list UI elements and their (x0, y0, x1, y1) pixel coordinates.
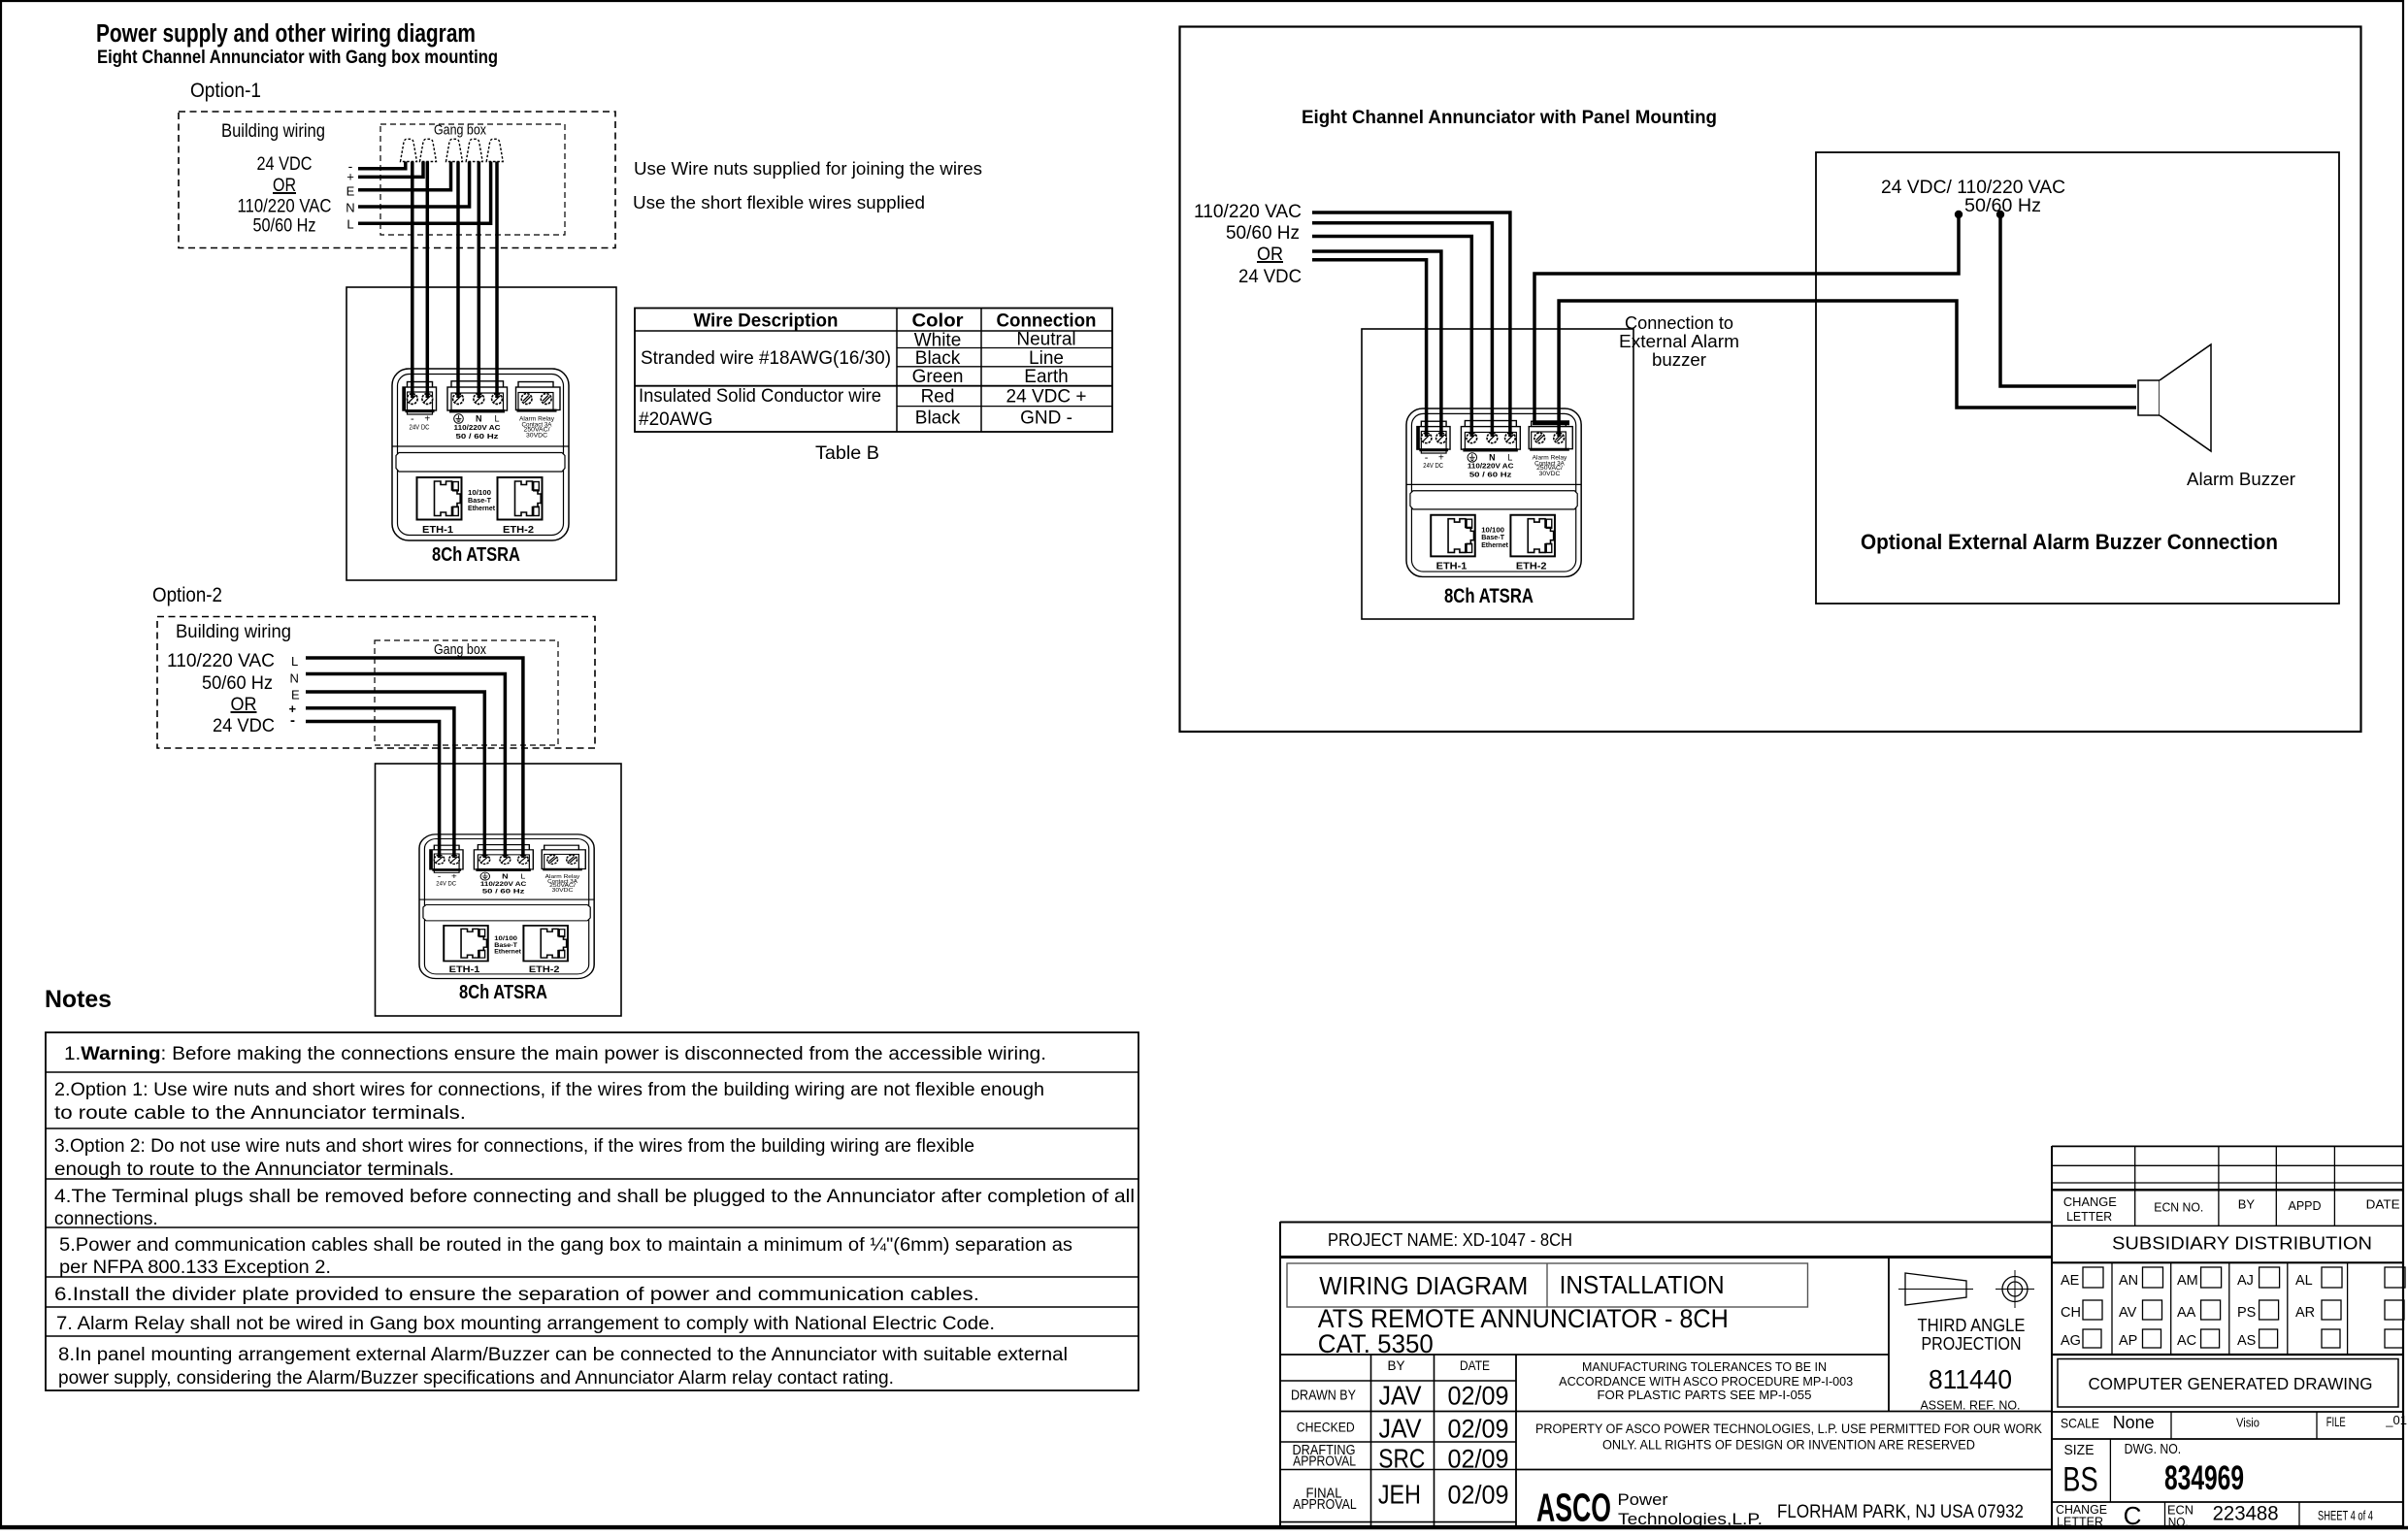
terminal block 24VDC of U3 panel (1417, 421, 1450, 470)
svg-text:834969: 834969 (2164, 1459, 2244, 1497)
svg-text:ETH-2: ETH-2 (529, 964, 560, 974)
svg-text:SHEET 4 of 4: SHEET 4 of 4 (2318, 1509, 2373, 1523)
terminal letters (option 2) (289, 654, 301, 729)
svg-text:_01: _01 (2385, 1413, 2407, 1427)
svg-text:02/09: 02/09 (1448, 1481, 1509, 1510)
Notes heading (45, 986, 112, 1013)
wire nut 4 (466, 139, 482, 161)
svg-text:Insulated Solid Conductor wire: Insulated Solid Conductor wire (639, 386, 881, 407)
wire plus 24VDC (option 1) (358, 161, 423, 177)
terminal letters (option 1) (346, 158, 354, 231)
svg-text:02/09: 02/09 (1448, 1414, 1509, 1443)
svg-text:50 / 60 Hz: 50 / 60 Hz (1469, 472, 1512, 479)
svg-text:+: + (451, 871, 457, 880)
label 8Ch ATSRA (option 2) (459, 981, 547, 1003)
option 1 mounting box (346, 287, 616, 580)
svg-text:PS: PS (2237, 1305, 2256, 1321)
svg-text:AM: AM (2177, 1273, 2198, 1289)
drawing title (1318, 1304, 1729, 1358)
label 8Ch ATSRA (panel) (1444, 585, 1534, 607)
distribution checkboxes (2112, 1262, 2348, 1355)
label 8Ch ATSRA (option 1) (432, 543, 520, 566)
svg-text:Earth: Earth (1024, 367, 1068, 387)
supply node dots (1955, 211, 2004, 218)
svg-text:AA: AA (2177, 1305, 2196, 1321)
terminal block Alarm Relay of U3 panel (1529, 421, 1572, 477)
svg-text:AV: AV (2119, 1305, 2137, 1321)
svg-text:OR: OR (273, 175, 296, 196)
svg-text:Connection to: Connection to (1625, 312, 1733, 333)
svg-text:DATE: DATE (1460, 1358, 1490, 1373)
label 10/100 Base-T Ethernet of U2 option-2 (494, 935, 521, 955)
svg-text:Building wiring: Building wiring (176, 622, 291, 642)
svg-text:BS: BS (2062, 1461, 2097, 1499)
alarm relay wire B to buzzer (1559, 301, 2136, 437)
wire nut1 drop to 24VDC - terminal (411, 161, 414, 398)
svg-text:AP: AP (2119, 1333, 2137, 1349)
svg-text:8Ch ATSRA: 8Ch ATSRA (1444, 585, 1534, 607)
buzzer supply wire (2000, 215, 2136, 386)
svg-text:OR: OR (1257, 244, 1283, 265)
svg-text:SRC: SRC (1378, 1444, 1425, 1474)
svg-text:10/100: 10/100 (494, 935, 517, 941)
svg-text:50 / 60 Hz: 50 / 60 Hz (482, 889, 526, 895)
svg-text:FOR PLASTIC PARTS SEE MP-I-055: FOR PLASTIC PARTS SEE MP-I-055 (1598, 1389, 1812, 1402)
svg-text:24 VDC: 24 VDC (257, 153, 313, 175)
svg-text:SIZE: SIZE (2064, 1443, 2095, 1458)
svg-text:GND -: GND - (1020, 409, 1072, 429)
svg-text:Technologies,L.P.: Technologies,L.P. (1618, 1511, 1763, 1528)
svg-text:CAT. 5350: CAT. 5350 (1318, 1329, 1434, 1358)
change letter / ecn / sheet row (2052, 1501, 2403, 1530)
svg-text:LETTER: LETTER (2066, 1209, 2112, 1224)
svg-text:Ethernet: Ethernet (1481, 540, 1508, 549)
ethernet port ETH-1 of U2 option-2 (444, 926, 488, 975)
svg-text:SUBSIDIARY DISTRIBUTION: SUBSIDIARY DISTRIBUTION (2112, 1233, 2372, 1254)
label 10/100 Base-T Ethernet of U3 panel (1481, 525, 1508, 549)
svg-text:AS: AS (2237, 1333, 2256, 1349)
svg-text:connections.: connections. (54, 1209, 158, 1229)
svg-text:AG: AG (2061, 1333, 2081, 1349)
svg-text:1.Warning: Before making the c: 1.Warning: Before making the connections… (64, 1044, 1046, 1064)
svg-text:L: L (494, 414, 499, 424)
front bezel band of U3 panel (1406, 484, 1581, 508)
svg-text:02/09: 02/09 (1448, 1382, 1509, 1411)
svg-text:Ethernet: Ethernet (494, 949, 521, 955)
svg-text:+: + (346, 170, 354, 184)
wire minus (panel) (1312, 260, 1427, 437)
svg-text:Alarm Buzzer: Alarm Buzzer (2187, 469, 2295, 489)
svg-text:ETH-2: ETH-2 (503, 524, 534, 536)
ethernet port ETH-2 of U1 option-1 (498, 477, 543, 536)
svg-text:JEH: JEH (1378, 1480, 1421, 1510)
svg-text:ONLY. ALL RIGHTS OF DESIGN OR: ONLY. ALL RIGHTS OF DESIGN OR INVENTION … (1602, 1437, 1975, 1452)
svg-text:Neutral: Neutral (1016, 330, 1075, 350)
wire earth E (option 2) (306, 692, 484, 858)
svg-text:Use the short flexible wires s: Use the short flexible wires supplied (633, 192, 925, 212)
svg-text:4.The Terminal plugs shall be: 4.The Terminal plugs shall be removed be… (54, 1187, 1135, 1207)
svg-text:BY: BY (2238, 1197, 2256, 1212)
svg-text:#20AWG: #20AWG (639, 409, 712, 430)
wire line L (option 2) (306, 658, 523, 858)
wire nut5 drop to L terminal (495, 161, 499, 398)
svg-text:DATE: DATE (2366, 1197, 2400, 1212)
ethernet port ETH-1 of U1 option-1 (417, 477, 462, 536)
source labels (option 2) (167, 650, 275, 736)
terminal block 110/220VAC of U2 option-2 (474, 845, 533, 896)
annunciator U1 option-1 (8Ch ATSRA) body (392, 369, 569, 540)
approval table text (1291, 1358, 1509, 1513)
buzzer supply labels (1881, 178, 2065, 216)
wire nut 3 (446, 139, 463, 161)
svg-text:enough to route to the Annunci: enough to route to the Annunciator termi… (54, 1160, 454, 1180)
svg-text:power supply, considering the: power supply, considering the Alarm/Buzz… (58, 1368, 894, 1389)
revision table (2052, 1146, 2403, 1226)
svg-text:ETH-1: ETH-1 (449, 964, 480, 974)
svg-text:811440: 811440 (1929, 1364, 2012, 1394)
ASCO logo (1536, 1486, 2024, 1530)
svg-text:30VDC: 30VDC (552, 887, 574, 893)
svg-text:L: L (520, 872, 525, 880)
svg-text:COMPUTER GENERATED DRAWING: COMPUTER GENERATED DRAWING (2089, 1374, 2373, 1393)
svg-text:02/09: 02/09 (1448, 1445, 1509, 1474)
svg-text:FLORHAM PARK, NJ USA 07932: FLORHAM PARK, NJ USA 07932 (1777, 1502, 2024, 1522)
svg-text:PROJECT NAME: XD-1047 - 8CH: PROJECT NAME: XD-1047 - 8CH (1328, 1229, 1572, 1250)
subsidiary distribution (2052, 1233, 2403, 1263)
svg-text:External Alarm: External Alarm (1619, 331, 1739, 351)
svg-text:Black: Black (915, 409, 961, 429)
wiring diagram / installation box (1287, 1263, 1808, 1307)
wire minus 24VDC (option 1) (358, 161, 406, 169)
svg-text:APPROVAL: APPROVAL (1293, 1497, 1357, 1513)
svg-text:to route cable to the Annuncia: to route cable to the Annunciator termin… (54, 1103, 466, 1124)
svg-text:L: L (346, 216, 353, 231)
svg-text:24 VDC/ 110/220 VAC: 24 VDC/ 110/220 VAC (1881, 178, 2065, 198)
optional buzzer box title (1861, 530, 2278, 554)
wire nut 2 (420, 139, 437, 161)
manufacturing tolerances note (1559, 1360, 1853, 1402)
svg-text:8.In panel mounting arrangemen: 8.In panel mounting arrangement external… (58, 1345, 1068, 1365)
svg-text:8Ch ATSRA: 8Ch ATSRA (432, 543, 520, 566)
svg-text:8Ch ATSRA: 8Ch ATSRA (459, 981, 547, 1003)
svg-text:AL: AL (2295, 1273, 2313, 1289)
svg-text:223488: 223488 (2213, 1503, 2279, 1525)
svg-text:Eight Channel Annunciator with: Eight Channel Annunciator with Gang box … (97, 48, 498, 68)
Option-2 label (152, 584, 222, 606)
svg-text:E: E (346, 184, 355, 199)
svg-text:Notes: Notes (45, 986, 112, 1013)
svg-text:Option-2: Option-2 (152, 584, 222, 606)
svg-text:THIRD ANGLE: THIRD ANGLE (1918, 1315, 2026, 1335)
svg-text:LETTER: LETTER (2057, 1515, 2103, 1529)
svg-text:NO.: NO. (2168, 1515, 2189, 1529)
note: use wire nuts (633, 158, 982, 212)
svg-text:24 VDC: 24 VDC (1238, 266, 1302, 287)
svg-text:AC: AC (2177, 1333, 2196, 1349)
wire neutral N (panel) (1312, 223, 1492, 437)
alarm buzzer speaker (2138, 344, 2211, 451)
annunciator U2 option-2 (8Ch ATSRA) body (419, 834, 594, 979)
annunciator U3 panel (8Ch ATSRA) body (1406, 409, 1581, 576)
svg-text:6.Install the divider plate pr: 6.Install the divider plate provided to … (54, 1285, 979, 1305)
front bezel band of U1 option-1 (392, 446, 569, 472)
svg-text:AE: AE (2061, 1273, 2080, 1289)
svg-text:50/60 Hz: 50/60 Hz (202, 672, 273, 694)
svg-text:JAV: JAV (1379, 1381, 1422, 1411)
wire nut 5 (486, 139, 503, 161)
svg-text:AN: AN (2119, 1273, 2138, 1289)
svg-text:Base-T: Base-T (494, 942, 518, 948)
svg-text:Gang box: Gang box (434, 122, 486, 139)
svg-text:OR: OR (231, 694, 257, 715)
svg-text:ETH-1: ETH-1 (1436, 562, 1468, 572)
svg-text:L: L (1507, 452, 1512, 462)
svg-text:ASSEM. REF. NO.: ASSEM. REF. NO. (1921, 1398, 2021, 1413)
panel mounting title (1302, 107, 1717, 128)
svg-text:JAV: JAV (1379, 1413, 1422, 1443)
terminal block Alarm Relay of U2 option-2 (542, 845, 585, 894)
terminal block 110/220VAC of U3 panel (1461, 421, 1520, 479)
wire neutral N (option 2) (306, 674, 505, 859)
svg-text:Visio: Visio (2236, 1416, 2260, 1430)
svg-text:5.Power and communication cabl: 5.Power and communication cables shall b… (59, 1235, 1072, 1256)
svg-text:110/220V AC: 110/220V AC (454, 423, 501, 432)
svg-text:Optional External Alarm Buzzer: Optional External Alarm Buzzer Connectio… (1861, 530, 2278, 554)
svg-text:PROPERTY OF ASCO POWER TECHNOL: PROPERTY OF ASCO POWER TECHNOLOGIES, L.P… (1535, 1422, 2042, 1436)
svg-text:Red: Red (921, 387, 955, 408)
svg-text:24 VDC +: 24 VDC + (1006, 387, 1087, 408)
svg-text:N: N (502, 872, 508, 880)
svg-text:Use Wire nuts supplied for joi: Use Wire nuts supplied for joining the w… (634, 158, 982, 179)
svg-text:Power supply and other wiring: Power supply and other wiring diagram (96, 20, 476, 48)
svg-text:Color: Color (912, 311, 965, 332)
svg-text:Wire Description: Wire Description (694, 311, 839, 332)
computer generated drawing cell (2058, 1359, 2398, 1408)
third angle projection symbol (1898, 1270, 2034, 1354)
svg-text:E: E (291, 688, 300, 703)
svg-text:N: N (290, 671, 299, 686)
Option-1 label (190, 80, 261, 102)
svg-text:110/220V AC: 110/220V AC (480, 881, 527, 887)
front bezel band of U2 option-2 (419, 899, 594, 921)
panel mounting outer box (1180, 27, 2361, 733)
svg-text:24V DC: 24V DC (410, 423, 430, 432)
wire earth E (option 1) (358, 161, 451, 190)
svg-text:Stranded wire #18AWG(16/30): Stranded wire #18AWG(16/30) (641, 348, 891, 369)
svg-text:WIRING DIAGRAM: WIRING DIAGRAM (1319, 1273, 1528, 1300)
svg-text:buzzer: buzzer (1652, 349, 1706, 370)
gang box dashed box (option 2) (375, 640, 558, 745)
project name row (1328, 1229, 1572, 1250)
svg-text:Eight Channel Annunciator with: Eight Channel Annunciator with Panel Mou… (1302, 107, 1717, 128)
wire nut4 drop to N terminal (478, 161, 481, 398)
svg-text:DWG. NO.: DWG. NO. (2125, 1442, 2182, 1457)
source labels (option 1) (238, 153, 332, 237)
svg-text:24V DC: 24V DC (436, 881, 456, 887)
ethernet port ETH-2 of U3 panel (1510, 515, 1555, 572)
building wiring dashed box (option 2) (157, 617, 595, 749)
alarm buzzer label (2187, 469, 2295, 489)
wire plus (panel) (1312, 251, 1441, 437)
svg-text:ACCORDANCE WITH ASCO PROCEDURE: ACCORDANCE WITH ASCO PROCEDURE MP-I-003 (1559, 1375, 1853, 1389)
wire nut2 drop to 24VDC + terminal (426, 161, 430, 398)
svg-text:AR: AR (2295, 1305, 2315, 1321)
svg-text:CHANGE: CHANGE (2063, 1194, 2117, 1209)
svg-text:50/60 Hz: 50/60 Hz (253, 215, 316, 237)
panel device mounting box (1362, 329, 1633, 619)
wire nut3 drop to earth terminal (456, 161, 460, 398)
terminal block 110/220VAC of U1 option-1 (447, 381, 508, 441)
option 2 mounting box (376, 764, 622, 1016)
Table B wire description table (635, 309, 1112, 465)
wire neutral N (option 1) (358, 161, 470, 207)
svg-text:APPD: APPD (2289, 1198, 2322, 1213)
ethernet port ETH-1 of U3 panel (1431, 515, 1475, 572)
wire line L (option 1) (358, 161, 491, 223)
label 10/100 Base-T Ethernet of U1 option-1 (468, 488, 495, 512)
svg-text:None: None (2113, 1413, 2155, 1432)
svg-text:CH: CH (2061, 1305, 2081, 1321)
svg-text:APPROVAL: APPROVAL (1293, 1454, 1356, 1469)
svg-text:Gang box: Gang box (434, 641, 486, 658)
svg-text:C: C (2124, 1501, 2142, 1530)
property note (1535, 1422, 2042, 1452)
svg-text:-: - (290, 712, 295, 729)
assem ref no (1921, 1364, 2021, 1413)
building wiring dashed box (option 1) (179, 112, 615, 248)
svg-text:AJ: AJ (2237, 1273, 2254, 1289)
connection note text (1619, 312, 1739, 370)
svg-text:Connection: Connection (997, 311, 1097, 332)
svg-text:50/60 Hz: 50/60 Hz (1226, 222, 1300, 244)
svg-text:DRAWN BY: DRAWN BY (1291, 1389, 1356, 1404)
wire nut 1 (401, 139, 417, 161)
svg-text:CHECKED: CHECKED (1297, 1421, 1355, 1435)
svg-text:2.Option 1: Use wire nuts and: 2.Option 1: Use wire nuts and short wire… (54, 1080, 1044, 1100)
wire earth E (panel) (1312, 237, 1471, 438)
main title (96, 20, 498, 68)
svg-text:ECN NO.: ECN NO. (2154, 1200, 2203, 1215)
svg-text:110/220 VAC: 110/220 VAC (238, 196, 332, 217)
svg-text:ASCO: ASCO (1536, 1486, 1611, 1530)
svg-text:7. Alarm Relay shall not be wi: 7. Alarm Relay shall not be wired in Gan… (56, 1314, 995, 1334)
wire plus (option 2) (306, 708, 454, 858)
svg-text:BY: BY (1387, 1358, 1404, 1373)
svg-text:30VDC: 30VDC (526, 433, 547, 440)
svg-text:30VDC: 30VDC (1539, 471, 1561, 477)
svg-text:110/220 VAC: 110/220 VAC (1194, 201, 1302, 222)
terminal block 24VDC of U1 option-1 (403, 382, 437, 432)
svg-text:N: N (1489, 452, 1495, 462)
title block frame (1280, 1146, 2052, 1526)
svg-text:per NFPA 800.133 Exception 2.: per NFPA 800.133 Exception 2. (59, 1258, 331, 1278)
wire line L (panel) (1312, 212, 1510, 437)
wire minus (option 2) (306, 722, 440, 859)
terminal block Alarm Relay of U1 option-1 (516, 382, 561, 440)
source labels (panel) (1194, 201, 1302, 287)
svg-text:Table B: Table B (815, 442, 879, 464)
svg-text:Green: Green (912, 367, 964, 387)
svg-text:Building wiring: Building wiring (221, 121, 325, 142)
svg-text:ETH-1: ETH-1 (422, 524, 453, 536)
gang box dashed box (option 1) (380, 122, 565, 236)
svg-text:N: N (346, 200, 354, 214)
notes table (46, 1032, 1138, 1390)
svg-text:Option-1: Option-1 (190, 80, 261, 102)
svg-text:3.Option 2: Do not use wire nu: 3.Option 2: Do not use wire nuts and sho… (54, 1136, 974, 1157)
size / dwg row (2052, 1439, 2403, 1502)
svg-text:FILE: FILE (2326, 1414, 2346, 1429)
svg-text:L: L (291, 654, 298, 669)
terminal block 24VDC of U2 option-2 (430, 845, 463, 887)
svg-text:24V DC: 24V DC (1423, 462, 1443, 470)
svg-text:MANUFACTURING TOLERANCES TO BE: MANUFACTURING TOLERANCES TO BE IN (1582, 1360, 1827, 1374)
svg-text:50 / 60 Hz: 50 / 60 Hz (456, 432, 500, 441)
svg-text:INSTALLATION: INSTALLATION (1560, 1272, 1725, 1299)
svg-text:110/220 VAC: 110/220 VAC (167, 650, 275, 671)
svg-text:50/60 Hz: 50/60 Hz (1964, 196, 2041, 216)
ethernet port ETH-2 of U2 option-2 (523, 926, 568, 975)
svg-text:24 VDC: 24 VDC (213, 715, 275, 736)
svg-text:Ethernet: Ethernet (468, 504, 495, 512)
scale row (2052, 1412, 2407, 1439)
optional buzzer box (1816, 152, 2339, 604)
svg-text:SCALE: SCALE (2061, 1416, 2099, 1431)
svg-text:N: N (476, 414, 482, 424)
svg-text:ETH-2: ETH-2 (1516, 562, 1547, 572)
svg-text:110/220V AC: 110/220V AC (1468, 463, 1514, 471)
svg-text:Power: Power (1618, 1491, 1669, 1509)
alarm relay wire A to buzzer supply (1533, 215, 1959, 423)
svg-text:PROJECTION: PROJECTION (1922, 1333, 2022, 1354)
